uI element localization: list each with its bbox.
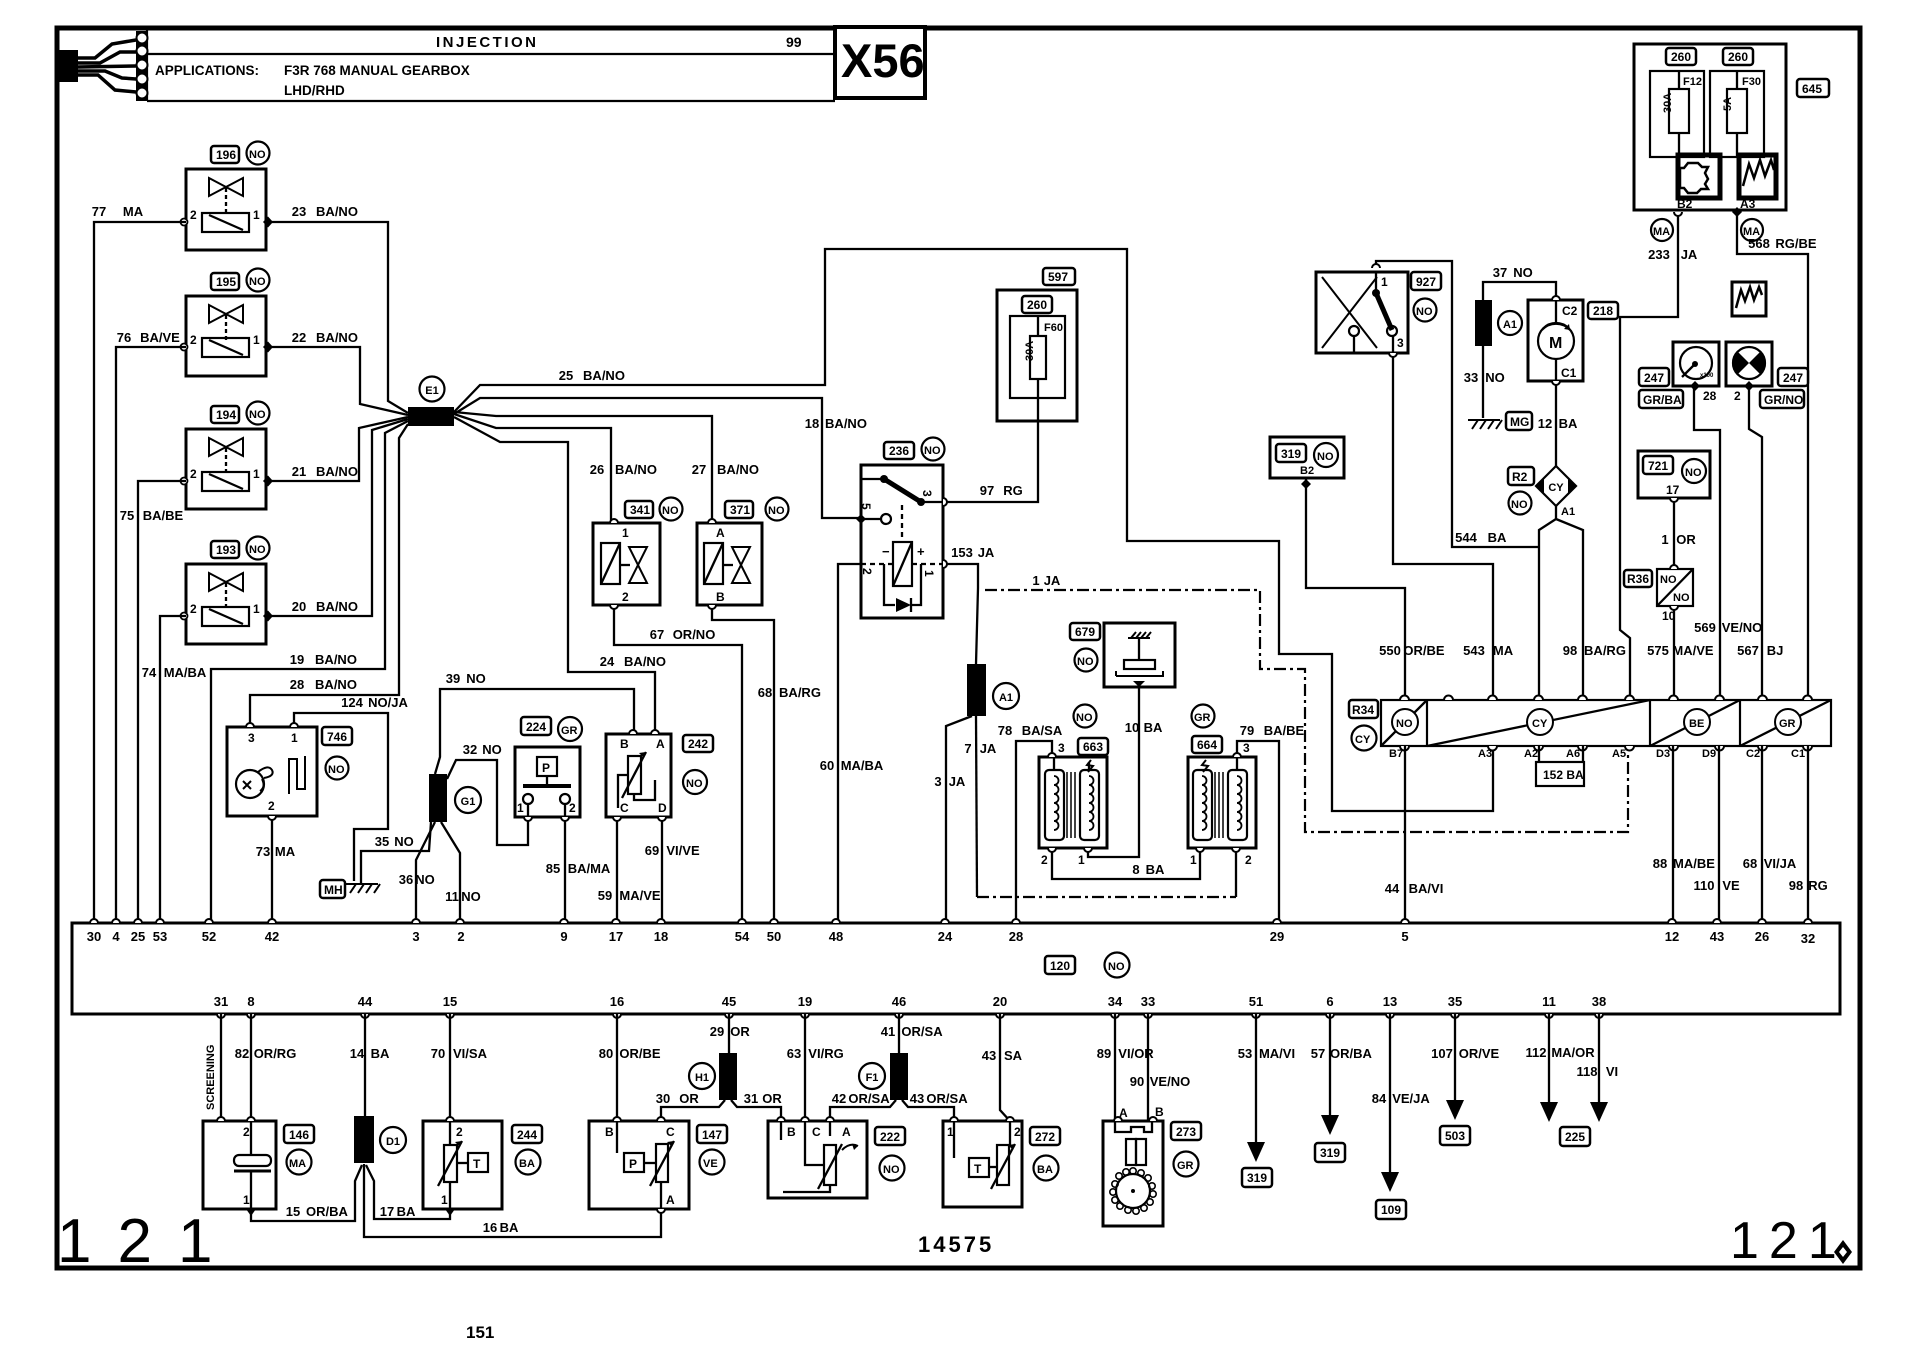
svg-text:29: 29 <box>1270 929 1284 944</box>
svg-text:503: 503 <box>1445 1129 1465 1143</box>
svg-text:2: 2 <box>860 568 874 575</box>
svg-text:242: 242 <box>688 737 708 751</box>
wire 15 OR/BA <box>246 1165 362 1221</box>
svg-text:JA: JA <box>978 545 995 560</box>
label R34 <box>1349 700 1378 751</box>
X56 plate <box>835 27 925 98</box>
svg-text:OR/BA: OR/BA <box>1330 1046 1373 1061</box>
connector MA (A3) <box>1741 219 1763 241</box>
wire 80 OR/BE <box>599 1014 661 1121</box>
svg-text:218: 218 <box>1593 304 1613 318</box>
svg-text:48: 48 <box>829 929 843 944</box>
svg-text:NO: NO <box>415 872 435 887</box>
svg-text:GR/NO: GR/NO <box>1764 393 1803 407</box>
ignition coil 664 <box>1188 741 1256 867</box>
wire 68 BA/RG <box>712 605 821 923</box>
svg-text:196: 196 <box>216 148 236 162</box>
svg-text:15: 15 <box>443 994 457 1009</box>
svg-text:73: 73 <box>256 844 270 859</box>
label 645 <box>1797 79 1829 97</box>
wire 118 VI <box>1577 1014 1619 1122</box>
crank sensor 273 <box>1103 1105 1164 1226</box>
label 272 <box>1030 1127 1060 1181</box>
wire 59 MA/VE <box>598 817 661 923</box>
svg-text:BA/VE: BA/VE <box>140 330 180 345</box>
svg-text:721: 721 <box>1648 459 1668 473</box>
svg-text:BA/VI: BA/VI <box>1409 881 1444 896</box>
svg-text:34: 34 <box>1108 994 1123 1009</box>
connector R36 <box>1624 569 1693 623</box>
svg-text:645: 645 <box>1802 82 1822 96</box>
svg-text:110: 110 <box>1694 878 1715 893</box>
svg-text:120: 120 <box>1050 959 1070 973</box>
svg-text:NO: NO <box>1660 574 1677 586</box>
svg-text:G1: G1 <box>461 796 476 808</box>
label 222 <box>875 1127 905 1181</box>
label 597 <box>1043 268 1075 285</box>
svg-text:15: 15 <box>286 1204 300 1219</box>
fuse box 645 <box>1634 44 1786 211</box>
svg-text:26: 26 <box>590 462 604 477</box>
svg-text:2: 2 <box>622 590 629 604</box>
svg-text:6: 6 <box>1326 994 1333 1009</box>
wire 57 OR/BA to 319 <box>1311 1014 1373 1162</box>
svg-text:NO: NO <box>1416 306 1433 318</box>
svg-text:10: 10 <box>1662 609 1676 623</box>
wire 97 RG <box>943 398 1038 502</box>
svg-text:B: B <box>1155 1105 1164 1119</box>
svg-text:NO: NO <box>328 764 345 776</box>
svg-text:A: A <box>716 526 725 540</box>
svg-text:39: 39 <box>446 671 460 686</box>
svg-text:BA/NO: BA/NO <box>316 330 358 345</box>
svg-text:OR: OR <box>1676 532 1696 547</box>
svg-text:22: 22 <box>292 330 306 345</box>
svg-text:MG: MG <box>1510 415 1529 429</box>
wire 664 pin2 <box>1235 848 1237 897</box>
svg-text:76: 76 <box>117 330 131 345</box>
svg-text:BA: BA <box>1037 1164 1053 1176</box>
svg-text:1: 1 <box>243 1193 250 1207</box>
svg-text:3: 3 <box>920 490 934 497</box>
svg-text:A1: A1 <box>1561 506 1575 518</box>
svg-text:146: 146 <box>289 1128 309 1142</box>
svg-text:OR/SA: OR/SA <box>848 1091 890 1106</box>
gauge 247 GR/BA <box>1639 342 1719 408</box>
wire 42 OR/SA <box>830 1091 896 1121</box>
svg-text:NO: NO <box>1108 961 1125 973</box>
coolant temp sensor 244 <box>423 1121 502 1216</box>
svg-text:3: 3 <box>412 929 419 944</box>
wire 11 NO <box>441 822 481 923</box>
svg-text:LHD/RHD: LHD/RHD <box>284 83 345 98</box>
svg-text:BA/MA: BA/MA <box>568 861 611 876</box>
svg-text:43: 43 <box>1710 929 1724 944</box>
svg-text:VE: VE <box>1722 878 1740 893</box>
wire 39 NO <box>435 671 634 774</box>
bus top pin bumps <box>90 919 1812 923</box>
wire CY to strip A2 <box>1539 506 1556 700</box>
page number 121 left <box>57 1207 238 1276</box>
svg-text:BA: BA <box>397 1204 416 1219</box>
wire 70 VI/SA <box>431 1014 488 1121</box>
svg-text:84: 84 <box>1372 1091 1387 1106</box>
svg-text:BA/NO: BA/NO <box>583 368 625 383</box>
svg-text:GR: GR <box>561 725 578 737</box>
svg-text:36: 36 <box>399 872 413 887</box>
svg-text:37: 37 <box>1493 265 1507 280</box>
svg-text:371: 371 <box>730 503 750 517</box>
svg-text:16: 16 <box>610 994 624 1009</box>
injector 193 <box>181 564 274 644</box>
page footer 151 <box>466 1323 494 1342</box>
wire 8 BA <box>1052 848 1200 879</box>
wire 26 BA/NO <box>454 414 657 523</box>
clock 247 GR/NO <box>1726 342 1808 408</box>
svg-text:A: A <box>842 1125 851 1139</box>
label 195 <box>211 269 270 292</box>
wire 153 JA <box>943 545 995 664</box>
svg-text:68: 68 <box>1743 856 1757 871</box>
svg-text:C2: C2 <box>1746 748 1760 760</box>
wire 30 OR <box>656 1091 725 1121</box>
label 194 <box>211 402 270 425</box>
svg-text:30A: 30A <box>1662 93 1674 113</box>
svg-text:OR/NO: OR/NO <box>673 627 716 642</box>
svg-text:NO: NO <box>394 834 414 849</box>
solenoid valve 371 <box>697 523 762 605</box>
svg-text:RG: RG <box>1808 878 1828 893</box>
svg-text:225: 225 <box>1565 1130 1585 1144</box>
svg-text:C: C <box>812 1125 821 1139</box>
wire 568 RG/BE <box>1737 212 1817 700</box>
wire 33 NO <box>1464 346 1505 418</box>
svg-text:236: 236 <box>889 444 909 458</box>
oxygen sensor 146 <box>203 1121 276 1209</box>
svg-text:A: A <box>666 1193 675 1207</box>
wire 3 JA <box>934 716 972 923</box>
svg-text:260: 260 <box>1671 50 1691 64</box>
svg-text:14: 14 <box>350 1046 365 1061</box>
svg-text:17: 17 <box>380 1204 394 1219</box>
unit 721 <box>1638 451 1710 498</box>
svg-text:MA: MA <box>1653 226 1670 238</box>
svg-text:C: C <box>666 1125 675 1139</box>
svg-text:VI/VE: VI/VE <box>666 843 700 858</box>
svg-text:B2: B2 <box>1300 465 1314 477</box>
idle regulator 147 <box>589 1121 689 1209</box>
svg-text:OR/VE: OR/VE <box>1459 1046 1500 1061</box>
svg-text:VI/RG: VI/RG <box>808 1046 843 1061</box>
svg-text:F60: F60 <box>1044 322 1063 334</box>
svg-text:1: 1 <box>1381 275 1388 289</box>
svg-text:52: 52 <box>202 929 216 944</box>
svg-text:319: 319 <box>1247 1171 1267 1185</box>
bus top pin numbers <box>87 929 1815 946</box>
svg-text:NO/JA: NO/JA <box>368 695 408 710</box>
svg-text:77: 77 <box>92 204 106 219</box>
svg-text:A1: A1 <box>999 692 1013 704</box>
wire 76 BA/VE <box>116 330 186 923</box>
svg-text:NO: NO <box>768 505 785 517</box>
svg-text:42: 42 <box>265 929 279 944</box>
svg-text:D3: D3 <box>1656 748 1670 760</box>
svg-text:VE: VE <box>703 1158 718 1170</box>
svg-text:BA: BA <box>500 1220 519 1235</box>
svg-text:3: 3 <box>934 774 941 789</box>
svg-text:341: 341 <box>630 503 650 517</box>
svg-text:74: 74 <box>142 665 157 680</box>
svg-text:121: 121 <box>57 1207 238 1276</box>
svg-text:M: M <box>1549 335 1562 352</box>
svg-text:78: 78 <box>998 723 1012 738</box>
svg-text:MA/BA: MA/BA <box>841 758 884 773</box>
svg-text:BA: BA <box>519 1158 535 1170</box>
svg-text:C: C <box>620 801 629 815</box>
svg-text:MA: MA <box>1493 643 1514 658</box>
wire 75 BA/BE <box>120 481 186 923</box>
label 147 <box>697 1125 727 1175</box>
wire 43 OR/SA <box>902 1091 968 1121</box>
svg-text:OR: OR <box>762 1091 782 1106</box>
svg-text:APPLICATIONS:: APPLICATIONS: <box>155 63 259 78</box>
label 242 <box>683 735 713 794</box>
solenoid valve 341 <box>593 523 660 605</box>
svg-text:F12: F12 <box>1683 76 1702 88</box>
svg-text:CY: CY <box>1548 482 1564 494</box>
svg-text:BA/NO: BA/NO <box>825 416 867 431</box>
svg-text:85: 85 <box>546 861 560 876</box>
svg-text:89: 89 <box>1097 1046 1111 1061</box>
svg-text:CY: CY <box>1532 718 1548 730</box>
svg-text:5: 5 <box>1401 929 1408 944</box>
svg-text:1: 1 <box>1661 532 1668 547</box>
dash-dot 664 return <box>977 896 1236 898</box>
svg-text:INJECTION: INJECTION <box>436 34 539 51</box>
svg-text:25: 25 <box>559 368 573 383</box>
svg-text:121: 121 <box>1730 1212 1847 1270</box>
svg-text:NO: NO <box>482 742 502 757</box>
svg-text:JA: JA <box>1044 573 1061 588</box>
label 663 <box>1074 705 1109 756</box>
svg-text:1: 1 <box>253 333 260 347</box>
wire 73 MA <box>256 816 296 923</box>
svg-text:BA: BA <box>371 1046 390 1061</box>
wire 18 BA/NO <box>454 398 867 518</box>
svg-text:244: 244 <box>517 1128 537 1142</box>
svg-text:1: 1 <box>517 801 524 815</box>
wire 23 BA/NO <box>266 204 408 413</box>
svg-text:8: 8 <box>1132 862 1139 877</box>
label 224 <box>521 717 582 741</box>
svg-text:BA/RG: BA/RG <box>779 685 821 700</box>
svg-text:319: 319 <box>1320 1146 1340 1160</box>
svg-text:NO: NO <box>249 409 266 421</box>
svg-text:109: 109 <box>1381 1203 1401 1217</box>
svg-text:GR: GR <box>1194 712 1211 724</box>
svg-text:MA/BE: MA/BE <box>1673 856 1715 871</box>
wire 567 BJ <box>1737 386 1783 700</box>
svg-text:35: 35 <box>375 834 389 849</box>
component pin bumps <box>217 207 1754 1213</box>
svg-text:107: 107 <box>1431 1046 1453 1061</box>
svg-text:MH: MH <box>324 883 343 897</box>
wire 84 VE/JA to 109 <box>1372 1014 1431 1219</box>
svg-text:OR/BA: OR/BA <box>306 1204 349 1219</box>
svg-text:544: 544 <box>1455 530 1477 545</box>
svg-text:OR/SA: OR/SA <box>901 1024 943 1039</box>
svg-text:C2: C2 <box>1562 304 1578 318</box>
svg-text:1: 1 <box>253 467 260 481</box>
svg-text:43: 43 <box>910 1091 924 1106</box>
svg-text:NO: NO <box>1513 265 1533 280</box>
injector 196 <box>181 169 274 250</box>
wire 32 NO <box>447 742 528 845</box>
svg-text:1: 1 <box>253 602 260 616</box>
wire 14 BA <box>350 1014 390 1116</box>
svg-text:32: 32 <box>1801 931 1815 946</box>
svg-text:38: 38 <box>1592 994 1606 1009</box>
svg-text:MA: MA <box>275 844 296 859</box>
svg-text:98: 98 <box>1789 878 1803 893</box>
svg-text:75: 75 <box>120 508 134 523</box>
svg-text:T: T <box>473 1157 481 1171</box>
wire 1 JA dash-dot <box>985 573 1628 832</box>
wire 124 NO/JA <box>294 695 408 881</box>
svg-text:OR/SA: OR/SA <box>926 1091 968 1106</box>
svg-text:NO: NO <box>883 1164 900 1176</box>
svg-text:BE: BE <box>1689 718 1704 730</box>
svg-text:A6: A6 <box>1566 748 1580 760</box>
wire 1 OR <box>1661 498 1696 567</box>
svg-text:OR: OR <box>679 1091 699 1106</box>
svg-text:151: 151 <box>466 1323 494 1342</box>
svg-text:33: 33 <box>1464 370 1478 385</box>
svg-text:JA: JA <box>949 774 966 789</box>
svg-text:5A: 5A <box>1722 97 1734 111</box>
svg-text:118: 118 <box>1577 1064 1598 1079</box>
svg-text:2: 2 <box>569 801 576 815</box>
svg-text:222: 222 <box>880 1130 900 1144</box>
svg-text:597: 597 <box>1048 270 1068 284</box>
svg-text:NO: NO <box>1077 656 1094 668</box>
relay R2 CY <box>1508 466 1576 518</box>
svg-text:NO: NO <box>924 445 941 457</box>
svg-text:2: 2 <box>190 602 197 616</box>
svg-text:194: 194 <box>216 408 236 422</box>
svg-text:VI/SA: VI/SA <box>453 1046 488 1061</box>
svg-text:31: 31 <box>214 994 228 1009</box>
svg-text:P: P <box>629 1157 637 1171</box>
svg-text:11: 11 <box>1542 994 1556 1009</box>
svg-text:1: 1 <box>291 731 298 745</box>
label 679 <box>1070 623 1100 672</box>
injector 195 <box>181 296 274 376</box>
svg-text:BA: BA <box>1559 416 1578 431</box>
svg-text:BA: BA <box>1144 720 1163 735</box>
svg-text:VE/JA: VE/JA <box>1392 1091 1430 1106</box>
label 146 <box>284 1125 314 1175</box>
svg-text:1: 1 <box>1190 853 1197 867</box>
wire 82 OR/RG <box>235 1014 297 1121</box>
svg-text:4: 4 <box>112 929 120 944</box>
svg-text:28: 28 <box>1703 389 1717 403</box>
svg-text:JA: JA <box>980 741 997 756</box>
fuse box 597 / 260 F60 <box>997 290 1077 421</box>
label 927 <box>1411 272 1441 322</box>
svg-text:E1: E1 <box>425 385 438 397</box>
svg-text:273: 273 <box>1176 1125 1196 1139</box>
svg-text:233: 233 <box>1648 247 1670 262</box>
svg-text:28: 28 <box>1009 929 1023 944</box>
wire screening <box>205 1014 221 1121</box>
svg-text:53: 53 <box>153 929 167 944</box>
svg-text:NO: NO <box>249 544 266 556</box>
svg-text:153: 153 <box>951 545 973 560</box>
svg-text:247: 247 <box>1783 371 1803 385</box>
svg-text:16: 16 <box>483 1220 497 1235</box>
connector strip R34 <box>1381 696 1831 761</box>
svg-text:2: 2 <box>268 799 275 813</box>
svg-text:29: 29 <box>710 1024 724 1039</box>
inertia switch 927 <box>1316 272 1408 353</box>
svg-text:23: 23 <box>292 204 306 219</box>
throttle potentiometer 222 <box>768 1121 867 1198</box>
svg-text:X56: X56 <box>841 34 925 87</box>
svg-text:18: 18 <box>805 416 819 431</box>
wire 36 NO <box>399 822 435 923</box>
harness connector glyph <box>57 31 148 101</box>
svg-text:BA/BE: BA/BE <box>143 508 184 523</box>
svg-text:MA/VI: MA/VI <box>1259 1046 1295 1061</box>
wire 74 MA/BA <box>142 616 207 923</box>
label 193 <box>211 537 270 560</box>
svg-text:112: 112 <box>1526 1045 1547 1060</box>
svg-text:59: 59 <box>598 888 612 903</box>
svg-text:A3: A3 <box>1740 197 1756 211</box>
svg-text:NO: NO <box>686 778 703 790</box>
svg-text:OR/BE: OR/BE <box>619 1046 661 1061</box>
svg-text:1: 1 <box>947 1125 954 1139</box>
label 236 <box>884 438 945 461</box>
svg-text:B: B <box>787 1125 796 1139</box>
svg-text:OR/RG: OR/RG <box>254 1046 297 1061</box>
svg-text:260: 260 <box>1728 50 1748 64</box>
ground MG <box>1468 412 1532 430</box>
label 196 <box>211 142 270 165</box>
wire 79 BA/BE <box>1237 723 1305 923</box>
svg-text:x100: x100 <box>1700 373 1714 379</box>
svg-text:19: 19 <box>290 652 304 667</box>
svg-text:82: 82 <box>235 1046 249 1061</box>
svg-text:42: 42 <box>832 1091 846 1106</box>
svg-text:JA: JA <box>1681 247 1698 262</box>
svg-text:32: 32 <box>463 742 477 757</box>
svg-text:BA/NO: BA/NO <box>316 464 358 479</box>
svg-text:2: 2 <box>1014 1125 1021 1139</box>
svg-text:550: 550 <box>1379 643 1401 658</box>
relay 236 <box>859 465 943 618</box>
splice D1 <box>354 1116 406 1163</box>
wire 53 MA/VI to 319 <box>1238 1014 1295 1187</box>
label 341 <box>625 498 683 521</box>
svg-text:575: 575 <box>1647 643 1669 658</box>
svg-text:NO: NO <box>249 149 266 161</box>
pressure switch 224 <box>515 747 580 817</box>
fuel temp sensor 272 <box>943 1121 1022 1207</box>
renault diamond <box>1834 1240 1852 1264</box>
svg-text:20: 20 <box>993 994 1007 1009</box>
